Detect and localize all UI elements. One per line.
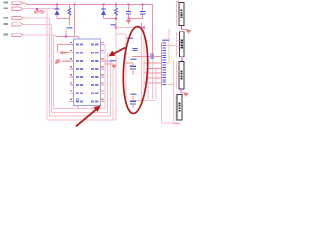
wire rail to D2 xyxy=(103,5,105,10)
label of port P4 xyxy=(4,23,9,25)
wire up right 2 xyxy=(107,53,109,113)
wire rail to D1 xyxy=(56,5,58,10)
label RP1 xyxy=(162,39,169,41)
stub J2-J3 xyxy=(181,57,183,62)
wire up right 3 xyxy=(109,61,111,116)
wire D1-R1 bottom xyxy=(57,18,69,20)
capacitor C6 xyxy=(133,47,138,49)
label of port P2 xyxy=(4,8,9,10)
stub row3 xyxy=(105,60,111,62)
IC U1 pin right 4 xyxy=(101,68,105,70)
pin stub J1 xyxy=(177,21,179,23)
wire into RP1 c xyxy=(148,67,162,69)
wire vertical x156 xyxy=(155,68,157,99)
wire into RP1 e xyxy=(148,77,162,79)
label of port P3 xyxy=(4,17,9,19)
junction above D3 D4 xyxy=(36,8,38,10)
wire down to circled cap xyxy=(125,34,127,99)
power arrow right of IC xyxy=(111,65,116,69)
pin stub J1 xyxy=(177,16,179,18)
wire branch y34 xyxy=(116,33,126,35)
stub J1 bottom xyxy=(181,26,183,30)
IC U1 pin right 7 xyxy=(101,92,105,94)
IC U1 pin right 8 xyxy=(101,100,105,102)
wire to power arrow J3 xyxy=(181,92,186,94)
IC U1 bottom pin xyxy=(77,105,79,108)
wire bottom right link xyxy=(162,122,174,124)
resistor R2 xyxy=(114,8,117,16)
wire corner left of IC xyxy=(57,45,59,53)
wire RP1 to x169 xyxy=(166,62,169,64)
wire up right 4 xyxy=(112,69,114,120)
IC U1 pin right 2 xyxy=(101,52,105,54)
wire vertical x152 lower xyxy=(151,56,153,99)
resistor pack RP1 xyxy=(161,42,163,87)
pin stub J2 xyxy=(177,52,180,54)
wire branch up xyxy=(140,23,142,28)
port P4 xyxy=(12,23,23,26)
capacitor C3 xyxy=(150,54,152,59)
pin stub J2 xyxy=(177,34,180,36)
power arrow near J3 xyxy=(183,93,188,97)
wire RP1 to J3 b xyxy=(166,84,173,86)
IC U1 pin left 1 xyxy=(70,44,74,46)
ground symbol left of IC xyxy=(56,60,59,63)
label near ellipse top xyxy=(127,38,133,40)
wire from port P4 xyxy=(23,23,52,25)
port P2 xyxy=(12,7,23,10)
junction port P2 wire at D1 xyxy=(56,8,58,10)
stub xyxy=(113,63,115,66)
stub into IC top xyxy=(78,37,80,39)
junction on rail xyxy=(115,4,117,6)
wire to IC top pin xyxy=(56,36,79,38)
wire C5 bottom stub xyxy=(132,104,134,108)
wire RP1 to J2 a xyxy=(166,44,176,46)
IC U1 pin right 3 xyxy=(101,60,105,62)
connector J2 xyxy=(180,32,185,57)
diode D2 xyxy=(101,8,106,10)
wire rail to R1 xyxy=(68,5,70,8)
wire port P5 jog xyxy=(55,35,57,37)
wire jog down xyxy=(65,30,67,37)
wire C5 top stub xyxy=(132,96,134,101)
label of port P1 xyxy=(4,2,9,4)
wire vertical x144 xyxy=(143,28,145,99)
wire J1 top stub xyxy=(177,1,179,3)
wire C4 link xyxy=(126,62,133,64)
wire D2 bottom xyxy=(103,15,105,18)
pin stub J1 xyxy=(177,5,179,7)
connector J1 xyxy=(179,3,184,26)
wire to IC pin left 1 xyxy=(58,44,70,46)
junction xyxy=(65,36,67,38)
wire port P5 down xyxy=(53,35,55,109)
capacitor C1 xyxy=(126,10,131,12)
pin stub J3 xyxy=(177,83,179,85)
port P1 xyxy=(12,1,23,4)
wire bottom rail 4 xyxy=(47,119,116,121)
label right of IC xyxy=(110,60,116,62)
wire rail to C2 xyxy=(142,5,144,12)
IC U1 pin left 7 xyxy=(70,92,74,94)
junction C1 bottom xyxy=(128,18,130,20)
wire J2 left xyxy=(176,32,178,57)
junction on rail xyxy=(56,4,58,6)
label C5 xyxy=(131,94,137,96)
power arrow left of IC xyxy=(63,52,67,54)
wire to power arrow J1 xyxy=(182,29,189,31)
wire C2 bottom xyxy=(142,15,144,19)
diode D4 xyxy=(40,10,45,13)
junction on rail xyxy=(103,4,105,6)
stub J3 bottom xyxy=(180,89,182,93)
wire J4 left xyxy=(175,95,177,124)
diode D3 xyxy=(34,10,39,13)
wire vertical x141 xyxy=(140,28,142,104)
IC U1 pin left 6 xyxy=(70,84,74,86)
annotation arrow 1 xyxy=(112,48,126,55)
pin stub J1 xyxy=(177,10,179,12)
wire to IC pin left 2 xyxy=(63,52,70,54)
wire to cap C3 xyxy=(132,55,150,57)
wire port P3 down xyxy=(48,18,50,116)
junction on rail xyxy=(74,4,76,6)
label C4 xyxy=(131,59,137,61)
wire C4 bottom stub xyxy=(132,69,134,75)
wire into RP1 f xyxy=(144,82,162,84)
pin stub J2 xyxy=(177,40,180,42)
IC U1 pin left 2 xyxy=(70,52,74,54)
stub to power arrow xyxy=(128,19,130,20)
IC U1 pin right 1 xyxy=(101,44,105,46)
wire RP1 down xyxy=(161,87,163,123)
wire rail right drop xyxy=(151,5,153,57)
IC U1 pin left 4 xyxy=(70,68,74,70)
label of port P5 xyxy=(4,34,9,36)
capacitor C2 xyxy=(140,10,145,12)
IC U1 body xyxy=(74,39,101,105)
pin stub J3 xyxy=(177,77,179,79)
IC U1 pin right 6 xyxy=(101,84,105,86)
wire from port P5 xyxy=(23,34,56,36)
wire J4 bottom xyxy=(174,123,181,125)
junction R2 bottom xyxy=(115,17,117,19)
wire up right 1 xyxy=(104,45,106,109)
wire J1 left xyxy=(176,2,178,26)
wire bottom link xyxy=(133,100,156,102)
wire top rail xyxy=(26,4,152,6)
wire bottom rail 3 xyxy=(49,115,110,117)
wire R2 down xyxy=(115,16,117,29)
diode D1 xyxy=(55,8,60,10)
wire vertical x169 xyxy=(168,29,170,63)
wire bottom rail 1 xyxy=(54,108,105,110)
wire branch y27 xyxy=(116,27,144,29)
power arrow below caps xyxy=(126,20,131,24)
junction x144 xyxy=(143,27,145,29)
connector J3 xyxy=(179,61,184,89)
wire from port P2 xyxy=(23,8,57,10)
port P5 xyxy=(12,33,23,36)
IC U1 pin left 8 xyxy=(70,100,74,102)
wire D1 bottom xyxy=(56,15,58,19)
wire C3 to RP1 xyxy=(154,55,161,57)
wire vertical x148 xyxy=(147,63,149,99)
connector J4 xyxy=(177,94,182,120)
wire J3 left xyxy=(176,61,178,89)
wire bottom rail 2 xyxy=(52,111,108,113)
wire rail drop x74.5 xyxy=(74,5,76,37)
IC U1 pin left 3 xyxy=(70,60,74,62)
wire from port P3 xyxy=(23,17,49,19)
IC U1 clock pin symbol xyxy=(76,99,79,102)
IC U1 pin left 5 xyxy=(70,76,74,78)
annotation ellipse xyxy=(121,26,150,114)
pin stub J3 xyxy=(177,70,179,72)
wire to IC pin left 3 xyxy=(63,60,70,62)
IC U1 pin right 5 xyxy=(101,76,105,78)
junction xyxy=(115,27,117,29)
power arrow near J1 xyxy=(186,30,191,34)
wire into RP1 d xyxy=(144,72,162,74)
label net1 xyxy=(67,27,73,29)
wire rail to C1 xyxy=(128,5,130,12)
wire port P2 down xyxy=(46,9,48,120)
junction on rail xyxy=(128,4,130,6)
wire C4 top stub xyxy=(132,63,134,66)
wire into RP1 b xyxy=(144,62,162,64)
wire port P4 down xyxy=(51,24,53,112)
wire C1-C2 bottom xyxy=(129,18,143,20)
pin stub J3 xyxy=(177,64,179,66)
junction on rail xyxy=(142,4,144,6)
wire from port P1 xyxy=(23,2,26,4)
wire C1 bottom xyxy=(128,15,130,19)
resistor R1 xyxy=(68,8,71,16)
wire R1 down xyxy=(68,16,70,26)
wire row gnd xyxy=(105,63,114,65)
label net2 xyxy=(111,24,116,26)
port P3 xyxy=(12,16,23,19)
junction x141 xyxy=(140,27,142,29)
wire D2-R2 bottom xyxy=(104,17,116,19)
wire R2 down long xyxy=(115,28,117,120)
wire rail to R2 xyxy=(115,5,117,8)
annotation arrow 2 xyxy=(76,109,97,127)
pin stub J2 xyxy=(177,46,180,48)
wire jog xyxy=(25,3,27,5)
wire outer vertical right xyxy=(173,60,175,124)
